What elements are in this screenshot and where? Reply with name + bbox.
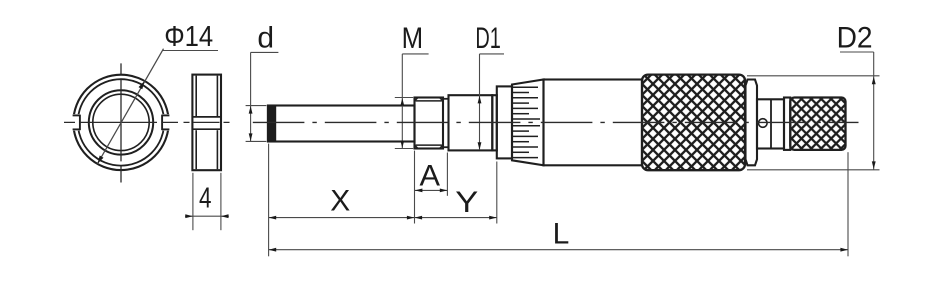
- thread undercut ring: [443, 98, 449, 100]
- thimble collar ring: [497, 86, 512, 158]
- svg-text:4: 4: [199, 182, 212, 214]
- thimble graduated bevel: [512, 80, 544, 166]
- graduation ticks: [513, 86, 538, 88]
- svg-text:X: X: [330, 185, 350, 218]
- diameter leader line PHI14: [97, 49, 163, 164]
- stem cylinder D1: [449, 95, 493, 150]
- label bar d: [251, 51, 279, 53]
- ratchet neck cylinder: [757, 99, 784, 148]
- svg-text:Y: Y: [455, 186, 478, 219]
- dim d extension lines: [246, 105, 267, 107]
- vertical centerline of front view: [120, 63, 122, 182]
- stem step ring: [492, 95, 497, 150]
- dim D2 vertical line: [873, 52, 875, 170]
- svg-text:d: d: [257, 21, 274, 54]
- label bar M: [402, 53, 428, 55]
- extension line thimble face (Y right): [496, 162, 498, 224]
- svg-text:D2: D2: [837, 22, 873, 55]
- extension line right end (L right): [847, 152, 849, 256]
- spindle body: [268, 106, 415, 142]
- dim D2 extension lines: [747, 75, 880, 77]
- svg-text:L: L: [553, 217, 570, 250]
- ratchet washer ring: [784, 98, 790, 150]
- thimble knurled grip (cross hatch): [642, 75, 745, 171]
- dim A line: [415, 189, 448, 191]
- set screw circle: [759, 119, 768, 128]
- thread M minor diameter lines: [416, 100, 442, 102]
- disk slot lines: [193, 116, 220, 118]
- disk chamfer line right: [216, 76, 218, 117]
- label bar D2: [840, 51, 874, 53]
- svg-text:M: M: [402, 22, 424, 55]
- svg-text:A: A: [420, 159, 441, 192]
- dim M extension lines: [395, 97, 413, 99]
- ratchet knob knurled (cross hatch): [790, 98, 845, 150]
- thread section M outline: [415, 98, 444, 149]
- left slot notch: [65, 114, 80, 131]
- dim 4 line with outside arrows: [185, 215, 229, 217]
- dim X and Y line: [269, 217, 497, 219]
- label bar PHI14: [162, 50, 218, 52]
- extension line thread start: [414, 151, 416, 224]
- extension line left (spindle face): [268, 144, 270, 257]
- spindle carbide tip (filled): [268, 106, 276, 142]
- disk chamfer line left: [195, 76, 197, 117]
- svg-text:D1: D1: [475, 22, 501, 55]
- thread M corner chamfers: [415, 98, 418, 101]
- dim L line: [269, 249, 848, 251]
- lock nut bore inner circle: [93, 94, 149, 150]
- lock nut front view: outer circle: [73, 75, 168, 170]
- right slot notch: [163, 114, 178, 131]
- dim 4 extension lines: [192, 173, 194, 230]
- extension line thread end (A right): [446, 153, 448, 196]
- disk centerline: [184, 121, 230, 123]
- neck internal edge: [770, 99, 772, 148]
- end flange (octagon with chamfers): [746, 80, 758, 166]
- dim M vertical line with leader: [401, 54, 403, 148]
- thimble body: [544, 80, 643, 166]
- horizontal centerline of front view: [64, 121, 178, 123]
- svg-text:Φ14: Φ14: [164, 21, 213, 53]
- label bar D1: [480, 53, 505, 55]
- lock nut front view: inner ring circle: [78, 79, 164, 165]
- lock nut side view disk: [192, 75, 221, 171]
- dim D1 vertical line with leader: [479, 54, 481, 150]
- dim d vertical line with leader: [250, 52, 252, 141]
- main centerline: [253, 121, 859, 123]
- lock nut bore outer circle: [89, 90, 153, 154]
